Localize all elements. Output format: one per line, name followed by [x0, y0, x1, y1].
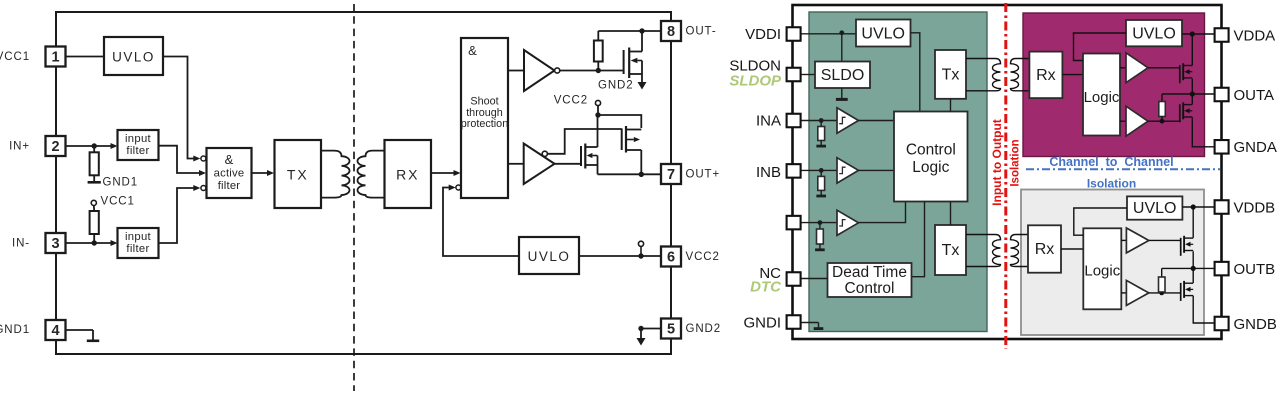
- ground bar below enable resistor: [819, 244, 821, 249]
- pin OUTA box: [1215, 88, 1229, 102]
- AND active filter block: [207, 148, 252, 198]
- wire pin2 to input filter 1: [66, 145, 112, 147]
- wire Q7 source to GNDB pin: [1193, 296, 1214, 323]
- pin GNDB box: [1215, 317, 1229, 331]
- Dead Time Control block: [828, 263, 912, 297]
- ground GND2 arrow at Q1 source: [641, 75, 643, 83]
- junction node OUT+: [639, 172, 644, 177]
- svg-text:Shoot: Shoot: [470, 96, 498, 108]
- svg-text:Tx: Tx: [942, 67, 960, 84]
- transistor Q6 channel B high side: [1181, 236, 1194, 256]
- svg-text:7: 7: [667, 167, 675, 183]
- wire Q5 source to GNDA pin: [1192, 117, 1214, 147]
- channel to channel blue dash-dot divider: [1026, 168, 1220, 170]
- svg-text:VCC2: VCC2: [554, 94, 588, 106]
- junction node enable pin: [818, 220, 823, 225]
- resistor R3 gate pullup: [597, 62, 599, 71]
- isolation barrier red dash-dot line: [1004, 3, 1007, 349]
- right diagram outer boundary box: [793, 5, 1222, 339]
- Control Logic block: [894, 112, 968, 202]
- bubble on active filter bottom input: [201, 186, 206, 191]
- svg-text:3: 3: [51, 236, 59, 252]
- left diagram outer boundary box: [56, 12, 671, 354]
- wire UVLO A to Logic A: [1074, 33, 1127, 61]
- junction node VDDB rail: [1191, 204, 1196, 209]
- svg-text:RX: RX: [396, 167, 419, 183]
- junction node VCC2 rail: [595, 112, 600, 117]
- wire R2 to IN- node: [93, 234, 95, 243]
- bubble on active filter top input: [201, 156, 206, 161]
- ground bar below INA resistor: [820, 141, 822, 146]
- wire active filter to TX: [252, 172, 269, 174]
- resistor gate pulldown channel B: [1161, 268, 1163, 277]
- svg-text:Logic: Logic: [912, 159, 949, 176]
- junction node OUTA: [1190, 91, 1195, 96]
- pin VDDI box (right diagram left side): [787, 27, 801, 41]
- svg-text:UVLO: UVLO: [528, 249, 571, 264]
- resistor R1 IN+ termination: [93, 146, 95, 152]
- wire input filter 2 to active filter inverted input: [159, 188, 196, 243]
- UVLO block channel B: [1127, 196, 1182, 219]
- wire U3 inverting tap to Q3 PMOS gate: [547, 129, 621, 154]
- svg-text:filter: filter: [126, 243, 149, 255]
- wire OUT+ node to pin 7: [598, 173, 662, 175]
- wire Q6 source to OUTB node: [1192, 251, 1194, 268]
- wire pin3 to input filter 2: [66, 242, 112, 244]
- wire U2 output to gate node A: [560, 70, 599, 72]
- junction node VDDA rail: [1190, 31, 1195, 36]
- wire Logic A to buffer A1: [1120, 67, 1126, 69]
- wire UVLO B to Logic B: [1074, 208, 1127, 235]
- svg-text:Tx: Tx: [942, 242, 960, 259]
- pin 2 box: [46, 136, 66, 156]
- svg-text:VCC1: VCC1: [0, 51, 30, 63]
- svg-text:GNDB: GNDB: [1234, 316, 1277, 333]
- junction node A: [596, 68, 601, 73]
- svg-text:UVLO: UVLO: [1132, 25, 1176, 42]
- wire Q4 source to OUTA node: [1191, 79, 1193, 94]
- transistor Q3 PMOS: [621, 129, 623, 151]
- junction node on IN+ wire: [92, 143, 97, 148]
- ground GND1 symbol below R1: [93, 175, 95, 181]
- UVLO block U1 input side: [104, 37, 163, 75]
- transistor Q1 NMOS low side of OUT-: [598, 70, 622, 72]
- schmitt buffer 2 INB: [837, 158, 859, 183]
- svg-text:Channel to Channel: Channel to Channel: [1049, 155, 1173, 169]
- resistor enable pulldown: [819, 223, 821, 229]
- svg-text:IN+: IN+: [9, 141, 30, 153]
- wire VCC2 rail to PMOS: [598, 115, 641, 128]
- wire input filter 1 to active filter: [159, 146, 200, 173]
- pin OUTB box: [1215, 262, 1229, 276]
- resistor R2 IN- pullup: [93, 206, 95, 212]
- svg-text:IN-: IN-: [12, 238, 30, 250]
- Tx block channel A: [935, 50, 966, 99]
- wire RX to shoot through protection: [431, 172, 455, 174]
- wire shoot block to inverter U2: [508, 70, 524, 72]
- Logic block channel A: [1083, 54, 1120, 136]
- svg-text:DTC: DTC: [750, 279, 782, 296]
- transformer channel A secondary winding: [1011, 59, 1031, 91]
- svg-text:UVLO: UVLO: [112, 50, 155, 65]
- pin VDDB box: [1215, 200, 1229, 214]
- wire Logic A to buffer A2: [1120, 120, 1126, 122]
- transformer channel B primary winding: [966, 235, 1001, 267]
- wire buffer A2 to Q5 gate: [1148, 120, 1180, 122]
- transformer T1 secondary winding: [358, 151, 386, 198]
- wire buffer B1 to Q6 gate: [1149, 239, 1181, 241]
- SLDO block: [815, 62, 870, 89]
- wire Logic B to buffer B2: [1121, 292, 1126, 294]
- wire UVLO A to VDDA pin: [1182, 33, 1215, 35]
- wire pin 4 to ground: [66, 329, 94, 331]
- bubble at inverter U2 output: [555, 68, 560, 73]
- wire U3 output to Q2 gate: [555, 163, 581, 165]
- wire buffer A1 to Q4 gate: [1148, 67, 1180, 69]
- resistor gate pulldown channel A: [1161, 94, 1163, 102]
- UVLO block input side: [856, 20, 911, 47]
- transformer T1 primary winding: [321, 151, 350, 198]
- ground bar at GNDI: [818, 323, 820, 328]
- wire VDDA rail down to Q4: [1191, 34, 1193, 65]
- svg-text:VDDA: VDDA: [1234, 27, 1276, 44]
- svg-text:OUTB: OUTB: [1234, 261, 1276, 278]
- input side region (teal): [809, 12, 987, 332]
- transformer channel B secondary winding: [1011, 235, 1029, 267]
- transistor Q5 channel A low side: [1180, 102, 1193, 122]
- pin VDDA box: [1215, 28, 1229, 42]
- svg-text:Logic: Logic: [1084, 263, 1120, 280]
- junction node at pin 5: [638, 326, 643, 331]
- schmitt buffer 1 INA: [837, 108, 859, 133]
- wire UVLO2 feedback to shoot through protection inverted input: [443, 188, 519, 257]
- svg-text:Rx: Rx: [1035, 241, 1055, 258]
- svg-text:TX: TX: [287, 167, 309, 183]
- buffer A1 high side: [1126, 53, 1148, 83]
- svg-text:UVLO: UVLO: [861, 26, 905, 43]
- UVLO block U4 output side: [519, 237, 579, 274]
- pin 1 box: [46, 47, 66, 67]
- buffer U3 low side driver: [524, 144, 555, 185]
- junction node INB: [819, 168, 824, 173]
- channel B region (gray): [1021, 190, 1204, 336]
- svg-text:Isolation: Isolation: [1010, 139, 1022, 186]
- wire UVLO to active filter inverted input: [163, 57, 195, 159]
- channel A region (magenta): [1023, 13, 1205, 157]
- svg-text:Rx: Rx: [1036, 67, 1056, 84]
- svg-text:GNDA: GNDA: [1234, 139, 1277, 156]
- pin 6 box: [661, 247, 681, 267]
- wire pin 5 to ground: [641, 328, 661, 330]
- wire SLDON pin to SLDO: [801, 74, 815, 76]
- pin 4 box: [46, 320, 66, 340]
- svg-text:Isolation: Isolation: [1087, 176, 1136, 190]
- svg-text:active: active: [214, 168, 245, 180]
- svg-text:GND2: GND2: [598, 79, 634, 91]
- svg-text:Control: Control: [906, 142, 956, 159]
- isolation barrier dashed divider line: [353, 4, 355, 391]
- wire UVLO B to VDDB pin: [1182, 206, 1214, 208]
- Logic block channel B: [1083, 228, 1121, 309]
- svg-text:protection: protection: [461, 118, 508, 130]
- pin 7 box: [661, 164, 681, 184]
- wire Rx to Logic channel B: [1061, 248, 1083, 250]
- svg-text:8: 8: [667, 24, 675, 40]
- wire Q7 drain to OUTB node: [1192, 268, 1194, 283]
- wire Rx to Logic channel A: [1062, 74, 1083, 76]
- transformer channel A primary winding: [966, 59, 1001, 91]
- wire INB pin to schmitt buffer 2: [801, 169, 837, 171]
- junction node on IN- wire: [92, 240, 97, 245]
- svg-text:OUT+: OUT+: [686, 169, 721, 181]
- junction node INA: [819, 118, 824, 123]
- junction node on VCC2 pin wire: [638, 253, 643, 258]
- svg-text:Control: Control: [845, 280, 895, 297]
- bubble tap on U3 inverting output: [542, 151, 547, 156]
- wire enable pin to schmitt buffer 3: [801, 222, 837, 224]
- pin SLDON box (right diagram left side): [787, 68, 801, 82]
- svg-text:GND1: GND1: [103, 177, 139, 189]
- inverter U2 high side: [524, 50, 555, 91]
- svg-text:2: 2: [51, 139, 59, 155]
- svg-text:input: input: [125, 133, 152, 145]
- transistor Q7 channel B low side: [1181, 281, 1194, 301]
- junction node on OUT- rail: [639, 28, 644, 33]
- wire control logic to dead time control: [912, 202, 925, 277]
- wire Tx1 bottom to control logic: [950, 99, 952, 112]
- input filter block 2: [118, 228, 159, 258]
- svg-text:Dead Time: Dead Time: [832, 264, 907, 281]
- buffer B2 low side: [1126, 280, 1148, 305]
- bubble on shoot through protection input: [456, 185, 461, 190]
- pin GNDA box: [1215, 140, 1229, 154]
- transistor Q2 NMOS source follower: [580, 146, 582, 166]
- wire buffer2 to control logic: [859, 169, 895, 171]
- junction node on VDDI wire: [839, 30, 844, 35]
- ground GND2 arrow at pin 5: [640, 329, 642, 339]
- svg-text:Logic: Logic: [1084, 89, 1120, 106]
- wire buffer1 to control logic: [859, 120, 895, 122]
- svg-text:VDDB: VDDB: [1234, 199, 1276, 216]
- pin unlabeled box (right diagram left side): [787, 216, 801, 230]
- wire buffer B2 to Q7 gate: [1149, 292, 1181, 294]
- svg-text:SLDOP: SLDOP: [729, 72, 782, 89]
- junction node on buffer A2 output: [1160, 119, 1165, 124]
- pin NC box (right diagram left side): [787, 272, 801, 286]
- svg-text:INA: INA: [756, 113, 781, 130]
- pin INB box (right diagram left side): [787, 164, 801, 178]
- pin INA box (right diagram left side): [787, 114, 801, 128]
- wire VDDI node to SLDO: [841, 33, 843, 62]
- ground bar below SLDO: [841, 88, 843, 98]
- VCC1 supply terminal circle above R2: [91, 200, 96, 205]
- wire UVLO to control logic: [911, 33, 920, 112]
- svg-text:4: 4: [51, 323, 59, 339]
- wire OUT- rail to pin 8: [598, 30, 661, 32]
- svg-text:SLDO: SLDO: [821, 67, 865, 84]
- wire Q5 drain to OUTA node: [1191, 94, 1193, 104]
- wire buffer3 to control logic bottom: [859, 202, 906, 223]
- svg-text:UVLO: UVLO: [1133, 200, 1177, 217]
- svg-text:filter: filter: [218, 180, 241, 192]
- pin GNDI box (right diagram left side): [787, 315, 801, 329]
- svg-text:5: 5: [667, 321, 675, 337]
- wire INA pin to schmitt buffer 1: [801, 120, 837, 122]
- Rx block channel A: [1029, 52, 1062, 99]
- input filter block 1: [118, 130, 159, 160]
- TX transmitter block: [275, 140, 322, 208]
- VCC2 supply terminal circle: [595, 100, 600, 105]
- schmitt buffer 3 enable: [837, 210, 859, 235]
- wire VDDI to UVLO: [801, 33, 856, 35]
- wire shoot block to buffer U3: [508, 163, 524, 165]
- pin 3 box: [46, 233, 66, 253]
- wire pin1 to UVLO: [66, 56, 105, 58]
- ground GND1 symbol at pin 4: [92, 330, 94, 340]
- svg-text:VDDI: VDDI: [745, 26, 781, 43]
- pin 5 box: [661, 319, 681, 339]
- pin 8 box: [661, 21, 681, 41]
- wire UVLO2 to pin 6 VCC2: [579, 255, 661, 257]
- Tx block channel B: [935, 225, 966, 275]
- wire Tx2 top to control logic: [950, 202, 952, 226]
- UVLO block channel A: [1126, 20, 1182, 46]
- wire VDDB rail down to Q6: [1192, 207, 1194, 238]
- wire Logic B to buffer B1: [1121, 239, 1126, 241]
- svg-text:Input to Output: Input to Output: [990, 119, 1004, 206]
- wire VCC2 stub to rail node: [597, 106, 599, 115]
- svg-text:OUTA: OUTA: [1234, 87, 1275, 104]
- svg-text:filter: filter: [126, 145, 149, 157]
- svg-text:1: 1: [51, 49, 59, 65]
- wire OUTA node to pin: [1162, 93, 1215, 95]
- svg-text:GNDI: GNDI: [744, 315, 782, 332]
- svg-text:VCC2: VCC2: [686, 251, 720, 263]
- wire NC pin to dead time control: [801, 278, 828, 280]
- resistor INB pulldown: [820, 170, 822, 176]
- buffer A2 low side: [1126, 106, 1148, 136]
- junction node OUTB: [1191, 266, 1196, 271]
- RX receiver block: [385, 140, 432, 208]
- transistor Q4 channel A high side: [1180, 63, 1193, 83]
- svg-text:INB: INB: [756, 164, 781, 181]
- svg-text:&: &: [468, 43, 477, 58]
- shoot through protection block: [461, 38, 508, 198]
- svg-text:OUT-: OUT-: [686, 26, 717, 38]
- svg-text:6: 6: [667, 249, 675, 265]
- svg-text:GND2: GND2: [686, 323, 722, 335]
- wire GNDI pin into region: [801, 322, 819, 324]
- svg-text:through: through: [466, 107, 503, 119]
- svg-text:VCC1: VCC1: [101, 196, 135, 208]
- svg-text:GND1: GND1: [0, 324, 30, 336]
- resistor INA pulldown: [820, 121, 822, 127]
- ground bar below INB resistor: [820, 190, 822, 195]
- buffer B1 high side: [1126, 228, 1148, 253]
- svg-text:input: input: [125, 231, 152, 243]
- wire OUTB node to pin: [1162, 267, 1215, 269]
- svg-text:&: &: [225, 152, 234, 167]
- VCC2 sense terminal circle at pin 6: [638, 241, 643, 246]
- junction node on buffer B2 output: [1159, 291, 1164, 296]
- Rx block channel B: [1028, 225, 1061, 272]
